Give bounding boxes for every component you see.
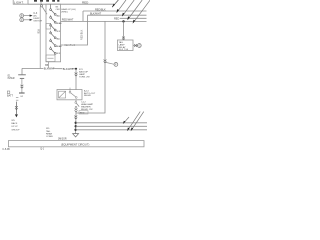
wire arrow from E2 [24,19,31,21]
junction dot 3 [74,129,76,131]
off-page arrow down left [15,102,17,115]
equipment circuit box [8,141,144,147]
svg-text:TAIL: TAIL [46,130,51,133]
junction dot on RED/WHT feeding tail relay [122,20,124,22]
inline connector below switch [75,108,78,111]
wire stub from top edge to contact [40,2,42,5]
wire RED short bus [120,17,147,19]
relay coil [59,91,66,98]
wire below ground bars [21,79,23,93]
wire below relay [75,100,77,102]
svg-text:COMB: COMB [46,136,53,138]
wire B16 vertical [39,7,41,69]
svg-text:TAIL: TAIL [56,37,61,40]
svg-text:(RHD): (RHD) [61,12,67,14]
svg-text:HEAD: HEAD [56,45,62,48]
svg-text:TURN .2W: TURN .2W [79,76,91,78]
wire RED bus [28,3,114,5]
tick marks [16,98,19,101]
labels inside tail relay box [119,41,129,51]
svg-text:SWITCH: SWITCH [33,20,42,22]
svg-text:BLK/WHT: BLK/WHT [63,68,74,71]
inline connector on ground wire [21,85,24,88]
svg-text:RED/BLK: RED/BLK [95,8,106,11]
svg-text:TAIL: TAIL [56,15,61,18]
svg-text:OFF: OFF [56,9,61,11]
svg-text:RED: RED [82,1,89,5]
small label box on y=113 wire [79,111,88,114]
page connector circle F [114,63,118,67]
junction dot on ground run [75,68,77,70]
junction dot 2 [75,125,77,127]
relay contact [69,88,71,92]
label W5 rear comb (three lines) [46,128,53,138]
tail relay connector box [118,40,134,51]
auto-cut relay box [57,90,82,100]
wire BLK/WHT ground run [22,67,76,69]
connector circle E2 [20,18,24,22]
connector circle E1 [20,14,24,18]
inline connector above tail relay [122,37,125,40]
svg-text:RELAY .2W: RELAY .2W [81,108,93,111]
svg-text:C: C [21,19,23,22]
switch arm C-12 [75,102,77,104]
svg-text:C-5 AB: C-5 AB [2,148,10,150]
top edge pin marks [34,0,59,2]
junction dot 1 [75,122,77,124]
inline connector F-11 [74,116,77,119]
svg-text:REAR: REAR [46,132,52,135]
contact circle at switch input [40,5,42,7]
off-page slash arrow on RED bus [112,0,118,8]
svg-text:UP LP: UP LP [11,126,18,128]
wire from BLK/WHT bus down to switch [61,15,88,45]
label W5 rear lamp (four lines) [11,120,20,132]
off-page diagonal feeders top-right [117,0,150,23]
legend box bottom-left [7,91,10,94]
chassis ground left [18,75,26,79]
tiny position labels inside switch [56,7,63,55]
wire center vertical [75,69,77,90]
svg-text:BATT: BATT [7,94,13,97]
wire down to tail relay box [123,21,125,40]
svg-text:3M/3GR: 3M/3GR [58,138,67,140]
svg-text:GROUP: GROUP [11,129,20,131]
wire center vertical lower [75,112,77,134]
wire BLK/WHT bus [88,14,147,16]
connector box LIGHT (top-left, cropped) [13,0,28,4]
wire from rheostat down to ground run [48,62,50,69]
sub box on left edge of switch [46,24,51,29]
svg-text:OFF: OFF [56,31,61,33]
svg-text:A/C: A/C [33,14,37,17]
svg-text:(EQUIPMENT CIRCUIT): (EQUIPMENT CIRCUIT) [61,142,89,146]
svg-text:RED/WHT: RED/WHT [62,19,74,22]
off-page diagonals bottom-right [123,112,143,131]
svg-text:RED: RED [114,18,119,21]
svg-text:OFF: OFF [56,53,61,55]
wire RED/BLK bus [83,10,147,12]
rheostat box inside switch bottom [46,55,55,62]
svg-text:LIGHT.: LIGHT. [14,0,24,4]
inline connector C-14 [75,73,78,76]
svg-text:HEAD: HEAD [56,22,62,25]
wire tail branch 1 [76,122,147,124]
wire RED/WHT from switch to right [61,20,147,22]
wire branch down at x=105 [76,21,105,113]
wire to page connector circle [133,45,137,47]
svg-text:BACK: BACK [11,122,17,125]
svg-text:G: G [139,45,141,48]
page connector circle G [137,44,141,48]
ground symbol bottom [73,134,79,137]
ground bar bottom [19,92,25,94]
svg-text:INTER: INTER [8,78,15,80]
svg-text:RELAY: RELAY [84,94,92,97]
stub from RED/BLK bus corner down [82,11,84,21]
switch arm diagonal [42,7,47,15]
switch chain inside lighting switch [50,4,56,54]
wire to page connector circle F [106,62,114,64]
wire tail branch 3 [76,129,147,131]
svg-text:RED/BLK: RED/BLK [64,44,75,47]
svg-text:BLK/WHT: BLK/WHT [90,13,102,16]
svg-text:B16: B16 [37,29,40,34]
svg-text:10-F 7-50: 10-F 7-50 [119,49,129,51]
svg-text:RED/BLK: RED/BLK [80,29,83,40]
svg-text:RED: RED [80,112,85,114]
wire tail branch 2 [76,125,147,127]
lighting switch box [46,4,61,62]
svg-text:BLK/WHT: BLK/WHT [44,68,55,71]
wire arrow from E1 [24,15,31,17]
inline connector on branch [104,60,107,63]
wire corner down to chassis ground left [21,68,23,74]
